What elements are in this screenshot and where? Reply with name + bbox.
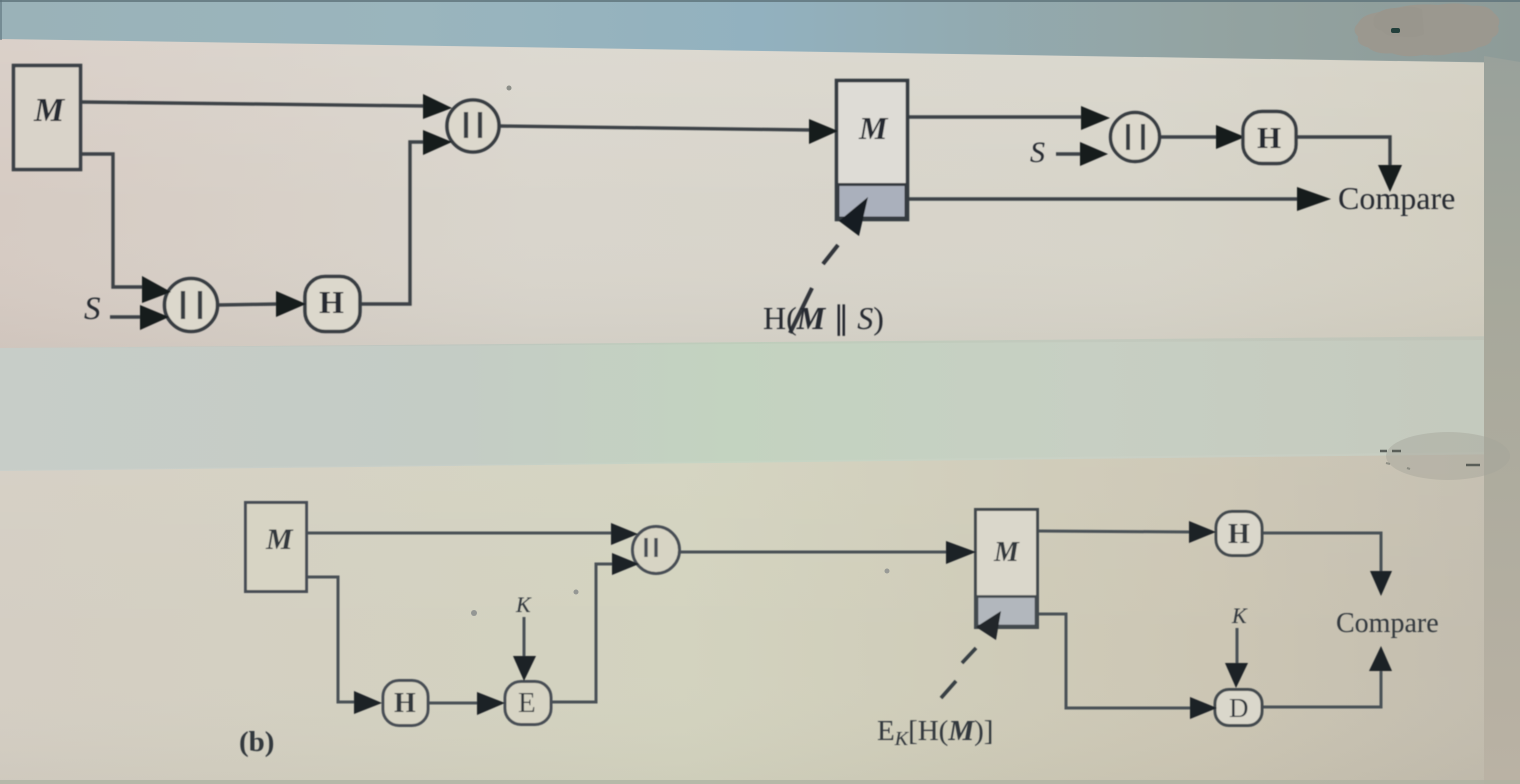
svg-text:S: S bbox=[84, 291, 101, 327]
svg-text:H: H bbox=[1228, 519, 1250, 550]
svg-text:(b): (b) bbox=[239, 726, 274, 758]
bottom edge darker line bbox=[0, 780, 1520, 784]
arrow into C2 from S1 bbox=[140, 305, 169, 330]
arrow into H1 bbox=[276, 291, 306, 317]
wire S1 to C2 bbox=[110, 315, 142, 318]
hash field of M4 bbox=[977, 597, 1036, 627]
arrow into C4 lower bbox=[612, 553, 639, 575]
svg-text:M: M bbox=[858, 110, 889, 146]
svg-text:K: K bbox=[515, 592, 532, 617]
hash box H5 bbox=[1216, 512, 1262, 556]
lower beige zone bbox=[0, 452, 1520, 784]
arrow up into Compare b bbox=[1369, 646, 1392, 671]
wire M4 hash field to D1 bbox=[1038, 614, 1192, 708]
arrow into C3 lower bbox=[1080, 142, 1108, 166]
svg-text:E: E bbox=[518, 687, 536, 719]
wire M4 top output to H5 bbox=[1038, 531, 1191, 532]
decrypt box D1 bbox=[1215, 690, 1262, 726]
wire C3 to H2 bbox=[1159, 135, 1218, 138]
top blue band bbox=[0, 0, 1520, 63]
concat circle C1 (top) bbox=[447, 100, 499, 152]
wire H1 up to C1 bbox=[360, 142, 425, 304]
svg-text:M: M bbox=[33, 92, 66, 129]
arrow into C1 lower bbox=[423, 130, 452, 155]
arrow into H5 bbox=[1189, 521, 1216, 543]
svg-text:H: H bbox=[319, 284, 344, 320]
svg-text:K: K bbox=[1231, 603, 1248, 628]
top edge dark line bbox=[0, 0, 1520, 2]
message block M1 (sender) bbox=[14, 66, 81, 170]
wire C2 to H1 bbox=[218, 304, 278, 305]
wire C4 to M4 bbox=[679, 551, 948, 554]
arrow into C1 upper bbox=[423, 94, 452, 119]
arrow down into Compare bbox=[1378, 165, 1402, 192]
arrow K1 down into E1 bbox=[513, 656, 536, 681]
arrow into M2 bbox=[809, 119, 838, 144]
svg-text:M: M bbox=[993, 537, 1020, 568]
annotation arrow to hash field b bbox=[976, 611, 1001, 640]
hash box H1 bbox=[305, 277, 360, 332]
message block M3 (sender b) bbox=[246, 503, 307, 592]
wire S2 to C3 bbox=[1056, 152, 1082, 155]
arrow down into Compare b bbox=[1370, 571, 1392, 596]
arrow into D1 bbox=[1190, 697, 1217, 719]
hash field of M2 bbox=[838, 185, 906, 219]
hash box H4 bbox=[383, 681, 428, 726]
stray marks right middle bbox=[1386, 432, 1510, 480]
concat circle C2 (lower left) bbox=[165, 279, 218, 332]
arrow into M4 bbox=[946, 541, 976, 564]
arrow into C3 upper bbox=[1081, 106, 1110, 130]
small specks bbox=[507, 86, 512, 91]
message block M2 (receiver) bbox=[837, 81, 908, 220]
svg-text:D: D bbox=[1229, 693, 1249, 723]
arrow into C4 upper bbox=[611, 523, 638, 545]
concat circle C3 bbox=[1111, 113, 1160, 162]
svg-text:M: M bbox=[265, 523, 294, 556]
arrow into H4 bbox=[354, 691, 382, 714]
annotation dashes b bbox=[941, 648, 976, 698]
svg-text:Compare: Compare bbox=[1336, 608, 1439, 639]
lighting overlays bbox=[0, 0, 1, 1]
wire E1 up to C4 bbox=[552, 564, 614, 702]
svg-text:H: H bbox=[1257, 120, 1281, 155]
right grey strip bbox=[1484, 56, 1520, 784]
message block M4 (receiver b) bbox=[976, 510, 1038, 628]
wire H5 right and down to Compare bbox=[1262, 533, 1381, 572]
hash box H2 bbox=[1243, 112, 1296, 164]
wire K1 into E1 bbox=[523, 617, 526, 657]
arrow K2 down into D1 bbox=[1225, 663, 1248, 688]
middle green band bbox=[0, 336, 1520, 471]
arrow into Compare (left) bbox=[1297, 187, 1331, 211]
wire M1 top output to concat circle C1 bbox=[81, 102, 426, 106]
wire M2 top output bbox=[908, 115, 1083, 118]
arrow into C2 from M1 bbox=[142, 276, 171, 303]
grey cloud blob top right bbox=[1355, 3, 1500, 56]
svg-text:S: S bbox=[1030, 136, 1045, 169]
wire H2 right and down to Compare bbox=[1296, 137, 1390, 166]
arrow into E1 bbox=[477, 692, 505, 715]
wire M1 side stub down to concat circle C2 bbox=[81, 154, 144, 287]
wire C1 to M2 (transmitted message) bbox=[499, 126, 811, 130]
annotation dashes bbox=[790, 245, 838, 333]
svg-text:EK[H(M)]: EK[H(M)] bbox=[877, 715, 993, 750]
svg-text:H: H bbox=[394, 688, 416, 719]
wire M3 top output to C4 bbox=[307, 532, 613, 535]
annotation arrow to hash field bbox=[839, 197, 868, 236]
wire M2 hash section to Compare bbox=[908, 197, 1299, 200]
svg-text:Compare: Compare bbox=[1338, 180, 1455, 216]
arrow into H2 bbox=[1216, 125, 1245, 149]
concat circle C4 bbox=[633, 527, 680, 574]
encrypt box E1 bbox=[505, 682, 551, 725]
wire D1 to Compare bbox=[1262, 670, 1381, 707]
svg-text:H(M ∥ S): H(M ∥ S) bbox=[763, 300, 884, 336]
wire H4 to E1 bbox=[428, 702, 479, 705]
wire M3 stub down to H4 bbox=[307, 577, 356, 702]
wire K2 into D1 bbox=[1236, 628, 1239, 664]
